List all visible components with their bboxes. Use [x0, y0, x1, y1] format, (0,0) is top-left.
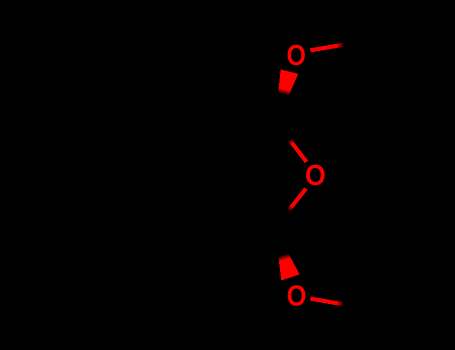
bond C1-O2 (upper ring bond, red half): [290, 140, 307, 162]
bond C3-O2 (lower ring bond, red half): [289, 189, 306, 211]
bond O-CH3 (top methyl, red half): [310, 45, 343, 51]
wedge bond C3-O (bottom stereo wedge, red half): [278, 254, 299, 281]
svg-text:O: O: [305, 159, 326, 191]
svg-text:O: O: [287, 39, 306, 71]
svg-text:O: O: [287, 279, 307, 312]
bond O-CH3 (bottom methyl, red half): [310, 299, 343, 305]
wedge bond C1-O (top stereo wedge, red half): [278, 69, 298, 95]
